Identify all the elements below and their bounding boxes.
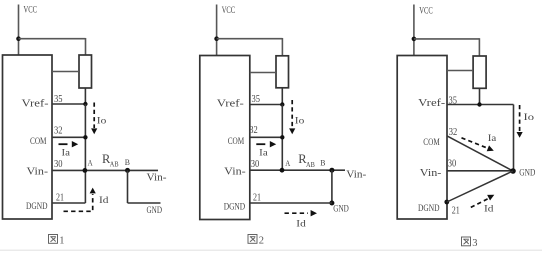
- current arrow Ia dash (fig1): [59, 143, 68, 145]
- svg-text:Vin-: Vin-: [27, 166, 49, 177]
- junction dot pin32 node (fig2): [280, 135, 284, 139]
- node A dot (fig1): [83, 168, 88, 173]
- svg-text:COM: COM: [30, 137, 47, 147]
- svg-text:A: A: [285, 159, 290, 168]
- svg-text:3: 3: [472, 238, 477, 249]
- wire resistor top lead (fig2): [281, 38, 283, 56]
- net VCC wire (fig2 vertical supply rail): [216, 5, 218, 56]
- svg-text:DGND: DGND: [26, 202, 48, 212]
- caption glyph 图 (fig2): [248, 235, 257, 244]
- wire resistor bottom lead (fig1): [84, 88, 86, 104]
- svg-text:35: 35: [449, 96, 458, 107]
- svg-text:DGND: DGND: [224, 202, 246, 212]
- svg-text:1: 1: [59, 235, 64, 246]
- pin 30 wire Vin- through RAB (fig2): [249, 169, 345, 171]
- svg-text:Ia: Ia: [259, 147, 268, 157]
- svg-text:Id: Id: [296, 220, 306, 230]
- svg-text:Vin-: Vin-: [147, 172, 167, 183]
- svg-text:GND: GND: [519, 168, 535, 178]
- svg-text:Vin-: Vin-: [346, 169, 366, 180]
- IC U1 body (fig1 DAC chip outline): [3, 55, 53, 219]
- wire VCC to resistor top (fig1 horizontal): [19, 38, 86, 40]
- svg-text:Ia: Ia: [62, 147, 71, 157]
- svg-text:Id: Id: [99, 196, 109, 206]
- wire vertical bus pin35 to pin21 (fig1): [84, 104, 86, 203]
- junction dot VCC node (fig2): [214, 36, 219, 41]
- current arrow Id dashed line (fig2): [285, 212, 309, 214]
- current arrow Io dashed line (fig2): [291, 100, 293, 128]
- wire chip to resistor left side (fig3): [447, 70, 473, 72]
- current arrow Io head (fig2): [289, 128, 295, 134]
- net VCC wire (fig1 vertical supply rail): [18, 5, 20, 56]
- wire diagonal pin32 to GND node (fig3): [447, 136, 513, 171]
- page bottom hairline: [0, 249, 542, 251]
- net VCC wire (fig3 vertical supply rail): [413, 5, 415, 56]
- pin 32 wire COM (fig2): [249, 136, 282, 138]
- svg-text:COM: COM: [423, 138, 440, 148]
- svg-text:35: 35: [252, 94, 261, 105]
- junction dot VCC node (fig1): [16, 36, 21, 41]
- junction dot pin35/resistor node (fig3): [477, 102, 481, 106]
- pin 30 wire Vin- to GND node (fig3): [447, 170, 513, 172]
- pin 32 wire COM (fig1): [52, 136, 86, 138]
- resistor R3 body (fig3 pull-up): [473, 56, 486, 88]
- pin 21 junction dot DGND (fig3): [444, 200, 449, 205]
- wire node B down to ground rail (fig1): [127, 170, 129, 203]
- wire node B down to GND node (fig2): [331, 170, 333, 203]
- svg-text:Vin-: Vin-: [420, 168, 442, 179]
- wire right vertical pin35 to GND node (fig3): [513, 105, 515, 172]
- wire chip to resistor left side (fig1): [52, 71, 79, 73]
- pin 35 wire Vref- (fig1): [52, 103, 86, 105]
- junction dot VCC node (fig3): [412, 37, 417, 42]
- current arrow Id head (fig2): [311, 210, 317, 216]
- svg-text:Vref-: Vref-: [22, 99, 49, 110]
- wire resistor top lead (fig1): [85, 38, 87, 56]
- svg-text:Vin-: Vin-: [224, 166, 246, 177]
- svg-text:Vref-: Vref-: [418, 98, 445, 109]
- svg-text:30: 30: [448, 159, 457, 170]
- svg-text:Id: Id: [484, 204, 494, 214]
- ground node dot (fig2): [329, 201, 334, 206]
- current arrow Io dashed line (fig1): [93, 103, 95, 129]
- junction dot pin32 node (fig1): [83, 135, 87, 139]
- wire resistor bottom lead (fig2): [281, 88, 283, 105]
- current arrow Ia head (fig1): [72, 141, 78, 147]
- svg-text:30: 30: [251, 159, 259, 170]
- svg-text:VCC: VCC: [222, 6, 236, 16]
- wire resistor bottom lead (fig3): [479, 88, 481, 104]
- svg-text:Io: Io: [524, 113, 535, 123]
- junction dot pin35/resistor node (fig1): [83, 102, 87, 106]
- node A dot (fig2): [280, 168, 285, 173]
- node B dot (fig1): [125, 168, 130, 173]
- svg-text:Io: Io: [295, 117, 305, 127]
- wire VCC to resistor top (fig2 horizontal): [217, 38, 283, 40]
- svg-text:32: 32: [249, 125, 258, 136]
- current arrow Io dashed line (fig3): [519, 105, 521, 131]
- wire chip to resistor left side (fig2): [250, 72, 276, 74]
- wire vertical bus pin35 to node A (fig2): [281, 105, 283, 171]
- svg-text:Vref-: Vref-: [217, 99, 244, 110]
- node B dot (fig2): [329, 168, 334, 173]
- current arrow Id head (fig3): [487, 195, 494, 201]
- caption glyph 图 (fig1): [49, 235, 58, 244]
- svg-text:Ia: Ia: [488, 134, 497, 144]
- current arrow Id dashed path (fig1): [64, 194, 93, 211]
- pin 30 wire Vin- through RAB (fig1): [52, 169, 158, 171]
- svg-text:DGND: DGND: [418, 204, 440, 214]
- pin 21 wire DGND (fig1): [52, 202, 86, 204]
- wire ground rail horizontal (fig1): [128, 202, 161, 204]
- IC U2 body (fig2 DAC chip outline): [200, 56, 250, 220]
- svg-text:VCC: VCC: [419, 7, 433, 17]
- svg-text:GND: GND: [333, 205, 349, 215]
- svg-text:32: 32: [449, 127, 458, 138]
- wire VCC to resistor top (fig3 horizontal): [414, 38, 480, 40]
- current arrow Io head (fig1): [91, 128, 97, 134]
- svg-text:GND: GND: [147, 206, 163, 216]
- current arrow Io head (fig3): [517, 132, 523, 138]
- svg-text:21: 21: [253, 192, 261, 203]
- current arrow Id dashed diagonal (fig3): [471, 199, 488, 208]
- current arrow Ia dash (fig2): [256, 143, 265, 145]
- IC U3 body (fig3 DAC chip outline): [397, 56, 447, 220]
- current arrow Ia head (fig2): [270, 141, 276, 147]
- svg-text:30: 30: [54, 159, 63, 170]
- svg-text:VCC: VCC: [24, 6, 38, 16]
- svg-text:32: 32: [54, 126, 63, 137]
- svg-text:A: A: [88, 159, 93, 168]
- svg-text:B: B: [320, 157, 326, 167]
- resistor R1 body (fig1 pull-up): [79, 55, 92, 88]
- wire diagonal pin21 DGND to GND node (fig3): [447, 171, 513, 202]
- svg-text:21: 21: [452, 205, 460, 216]
- svg-text:35: 35: [54, 94, 63, 105]
- caption glyph 图 (fig3): [462, 237, 471, 246]
- svg-text:2: 2: [259, 235, 264, 246]
- pin 35 wire Vref- long (fig3): [447, 104, 514, 106]
- svg-text:AB: AB: [110, 160, 119, 169]
- current arrow Ia dashed diagonal (fig3): [462, 138, 487, 148]
- svg-text:21: 21: [56, 193, 64, 204]
- svg-text:AB: AB: [306, 160, 315, 169]
- resistor R2 body (fig2 pull-up): [276, 56, 289, 88]
- wire resistor top lead (fig3): [478, 38, 480, 56]
- current arrow Id head (fig1): [90, 188, 96, 194]
- junction dot pin35/resistor node (fig2): [280, 102, 284, 106]
- svg-text:COM: COM: [228, 137, 245, 147]
- pin 35 wire Vref- (fig2): [249, 104, 282, 106]
- ground node dot GND (fig3): [510, 168, 516, 174]
- svg-text:Io: Io: [97, 117, 107, 127]
- current arrow Ia head (fig3): [487, 145, 494, 151]
- svg-text:B: B: [125, 157, 131, 167]
- pin 21 wire DGND to GND node (fig2): [249, 202, 332, 204]
